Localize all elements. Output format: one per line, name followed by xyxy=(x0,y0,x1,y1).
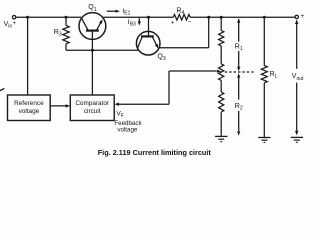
svg-text:−: − xyxy=(188,19,192,26)
node Vin rail junction xyxy=(26,16,29,19)
node R4 right junction xyxy=(207,16,210,19)
dashed wiper level line xyxy=(225,71,254,73)
arrowhead R2 top xyxy=(237,73,240,77)
arrowhead R1 top xyxy=(237,18,240,22)
ground RL xyxy=(258,138,270,143)
resistor R2 lower section xyxy=(219,92,224,112)
voltage arrow Vout upper xyxy=(296,22,298,69)
ground pot xyxy=(215,136,227,141)
svg-text:+: + xyxy=(301,13,305,20)
wire feedback into comparator xyxy=(118,103,170,105)
wire R3 top lead xyxy=(65,17,67,25)
emitter arrow Q1 xyxy=(99,19,103,24)
wire Q3 base to rail xyxy=(148,17,150,35)
arrow reference to comparator xyxy=(50,105,67,107)
dimension arrow R1 span xyxy=(238,19,240,68)
arrowhead Vout bottom xyxy=(295,131,298,136)
svg-text:Fig. 2.119 Current limiting ci: Fig. 2.119 Current limiting circuit xyxy=(98,148,212,157)
svg-text:Reference: Reference xyxy=(14,100,44,107)
wire top rail Q1 to R4 xyxy=(103,16,173,18)
svg-text:circuit: circuit xyxy=(84,108,101,115)
wire top rail R4 to output xyxy=(190,16,295,18)
voltage arrow Vout lower xyxy=(296,83,298,131)
wire RL bottom lead xyxy=(263,83,265,137)
node RL top junction xyxy=(263,16,266,19)
wire feedback from wiper xyxy=(169,70,217,72)
wire R3 bottom lead xyxy=(65,44,67,50)
svg-text:+: + xyxy=(13,20,17,27)
resistor RL xyxy=(261,66,267,83)
wire pot mid lead 1 xyxy=(220,46,222,64)
current arrow IB3 xyxy=(138,18,140,22)
arrowhead IE1 xyxy=(116,10,120,13)
resistor R1 upper section xyxy=(219,31,224,47)
wire base node horizontal xyxy=(66,49,139,51)
wire Q3 emitter riser xyxy=(208,17,210,48)
arrowhead VF into comparator xyxy=(115,103,119,106)
svg-text:voltage: voltage xyxy=(19,108,40,115)
wire feedback riser xyxy=(168,71,170,104)
node R3 top junction xyxy=(65,16,68,19)
node R1 top junction xyxy=(220,16,223,19)
resistor pot wiper section xyxy=(219,64,224,81)
terminal Vin+ xyxy=(12,16,15,19)
resistor R3 xyxy=(63,25,69,43)
wire pot mid lead 2 xyxy=(220,81,222,93)
svg-text:+: + xyxy=(171,19,175,26)
wire pot top lead xyxy=(220,17,222,30)
svg-text:Comparator: Comparator xyxy=(75,100,110,107)
resistor R4 xyxy=(173,14,190,20)
arrowhead R2 bottom xyxy=(237,131,240,135)
wire Q3 emitter horizontal xyxy=(159,47,209,49)
wire Q1 base to comparator xyxy=(91,31,93,95)
terminal Vin minus mark xyxy=(0,89,4,91)
transistor Q3 xyxy=(136,31,160,55)
wire pot bottom lead xyxy=(220,112,222,136)
wire RL top lead xyxy=(263,17,265,65)
node Q1 base junction xyxy=(91,49,94,52)
current arrow IE1 xyxy=(107,10,117,12)
arrowhead R1 bottom xyxy=(237,67,240,71)
arrowhead wiper xyxy=(217,70,221,73)
wire rail to reference box xyxy=(27,17,29,95)
emitter arrow Q3 xyxy=(155,44,158,49)
node Q3 base junction xyxy=(147,16,150,19)
arrowhead IB3 xyxy=(138,21,141,25)
block reference voltage xyxy=(8,95,51,121)
block comparator circuit xyxy=(70,95,114,121)
arrowhead into comparator xyxy=(66,104,70,107)
dimension arrow R2 span xyxy=(238,76,240,131)
ground Vout xyxy=(291,137,303,142)
arrowhead Vout top xyxy=(295,19,298,24)
transistor Q1 xyxy=(79,13,106,40)
wire top rail Vin to Q1 xyxy=(16,16,81,18)
terminal Vout+ xyxy=(295,15,298,18)
svg-text:voltage: voltage xyxy=(117,127,138,134)
